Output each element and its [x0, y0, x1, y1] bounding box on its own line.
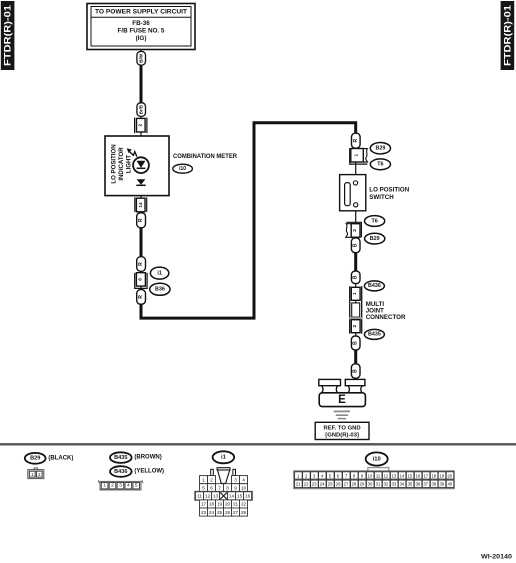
node REF TO GND box — [315, 422, 369, 439]
svg-text:6: 6 — [210, 486, 213, 491]
wire color label B (above MJC) — [351, 271, 360, 284]
svg-text:25: 25 — [328, 482, 333, 487]
svg-text:2: 2 — [38, 472, 41, 477]
svg-text:1: 1 — [103, 482, 106, 488]
svg-text:12: 12 — [384, 473, 389, 478]
svg-text:FTDR(R)-01: FTDR(R)-01 — [2, 4, 13, 66]
svg-text:28: 28 — [352, 482, 357, 487]
svg-text:2: 2 — [137, 124, 143, 127]
svg-text:6: 6 — [137, 278, 143, 281]
svg-text:TO POWER SUPPLY CIRCUIT: TO POWER SUPPLY CIRCUIT — [95, 9, 187, 16]
svg-text:36: 36 — [416, 482, 421, 487]
svg-text:26: 26 — [225, 510, 231, 515]
wire left branch thin backbone — [140, 50, 142, 319]
svg-text:INDICATOR: INDICATOR — [118, 147, 125, 181]
svg-text:34: 34 — [400, 482, 405, 487]
svg-text:38: 38 — [431, 482, 436, 487]
wire thick routed run B36 to B29 (down-right-up-right) — [141, 123, 356, 318]
svg-text:22: 22 — [304, 482, 309, 487]
svg-text:F/B FUSE NO. 5: F/B FUSE NO. 5 — [118, 28, 165, 35]
node FTDR(R)-01 right title bar — [501, 1, 515, 70]
wire color label R (right branch top) — [352, 133, 361, 148]
svg-text:B435: B435 — [368, 332, 381, 338]
svg-text:1: 1 — [31, 472, 34, 477]
lamp LO POSITION INDICATOR LIGHT (LED symbol) — [127, 148, 149, 185]
svg-text:30: 30 — [368, 482, 373, 487]
combination meter box — [105, 136, 169, 196]
svg-text:8: 8 — [226, 486, 229, 491]
svg-text:26: 26 — [336, 482, 341, 487]
label MULTI JOINT CONNECTOR — [366, 301, 406, 321]
svg-text:14: 14 — [229, 494, 235, 499]
connector pin 2 (B435 MJC lower) — [351, 320, 360, 333]
svg-text:31: 31 — [376, 482, 381, 487]
wire color label B (below MJC) — [351, 336, 360, 350]
svg-text:27: 27 — [233, 510, 239, 515]
ground terminal E — [319, 379, 366, 406]
svg-text:B/W: B/W — [139, 53, 144, 63]
svg-text:37: 37 — [423, 482, 428, 487]
legend connector B435/B436 pin view (1-5) — [98, 480, 143, 490]
legend separator rule — [0, 443, 516, 445]
svg-text:WI-20140: WI-20140 — [481, 554, 512, 561]
svg-text:18: 18 — [209, 502, 215, 507]
svg-text:14: 14 — [138, 202, 143, 208]
svg-text:28: 28 — [241, 510, 247, 515]
connector pin 6 (i1 / B36 junction) — [135, 273, 147, 289]
svg-text:20: 20 — [225, 502, 231, 507]
svg-text:15: 15 — [237, 494, 243, 499]
connector pin 14 (meter lower, i10 pin 14) — [135, 197, 147, 211]
legend connector ref i1 oval — [213, 451, 235, 463]
svg-text:14: 14 — [400, 473, 405, 478]
legend connector ref B435 oval — [110, 452, 132, 463]
svg-text:3: 3 — [119, 482, 122, 488]
svg-text:2: 2 — [352, 229, 358, 232]
svg-text:10: 10 — [368, 473, 373, 478]
svg-text:19: 19 — [217, 502, 223, 507]
wire thick segment B29 to B436 — [354, 253, 357, 272]
svg-text:4: 4 — [242, 478, 245, 483]
node TO POWER SUPPLY CIRCUIT / fuse FB-36 F/B FUSE NO.5 (IG) — [87, 4, 195, 50]
svg-text:21: 21 — [233, 502, 239, 507]
ground hatch lines — [334, 411, 350, 418]
svg-text:23: 23 — [312, 482, 317, 487]
svg-text:24: 24 — [320, 482, 325, 487]
svg-text:(BROWN): (BROWN) — [134, 455, 161, 461]
svg-text:(BLACK): (BLACK) — [48, 455, 73, 461]
svg-text:23: 23 — [201, 510, 207, 515]
svg-text:2: 2 — [210, 478, 213, 483]
wire thick segment B435 to ground — [354, 350, 357, 365]
svg-text:B29: B29 — [370, 236, 380, 242]
connector ref i1 oval — [150, 267, 168, 279]
svg-text:25: 25 — [217, 510, 223, 515]
svg-text:39: 39 — [439, 482, 444, 487]
svg-text:3: 3 — [234, 478, 237, 483]
svg-text:FB-36: FB-36 — [132, 20, 150, 27]
svg-text:17: 17 — [423, 473, 428, 478]
svg-text:R: R — [138, 218, 144, 222]
wire thick segment fuse to meter — [140, 65, 143, 104]
svg-text:12: 12 — [205, 494, 211, 499]
svg-text:18: 18 — [431, 473, 436, 478]
svg-text:(IG): (IG) — [136, 35, 147, 42]
svg-text:R: R — [138, 262, 144, 266]
wire color label R (below B36) — [137, 290, 146, 305]
wire right branch thin backbone lower — [355, 207, 357, 380]
switch LO POSITION SWITCH box — [340, 175, 366, 211]
svg-text:B: B — [353, 341, 359, 345]
wire color label R (above i1 connector) — [137, 257, 146, 272]
svg-text:13: 13 — [392, 473, 397, 478]
svg-text:COMBINATION METER: COMBINATION METER — [173, 153, 237, 160]
svg-text:i1: i1 — [157, 270, 162, 276]
connector pin 1 (B436 MJC upper) — [351, 287, 360, 300]
legend connector i1 pin view — [195, 468, 253, 516]
svg-text:5: 5 — [202, 486, 205, 491]
svg-text:32: 32 — [384, 482, 389, 487]
svg-text:16: 16 — [245, 494, 251, 499]
svg-text:5: 5 — [135, 482, 138, 488]
connector ref i10 (at meter) — [173, 164, 193, 173]
svg-text:FTDR(R)-01: FTDR(R)-01 — [502, 4, 513, 66]
wire color label R (below pin 14) — [137, 213, 146, 228]
multi joint connector MJC frame — [349, 286, 362, 333]
svg-text:B29: B29 — [375, 146, 385, 152]
svg-text:2: 2 — [352, 325, 358, 328]
node FTDR(R)-01 left title bar — [1, 1, 15, 70]
svg-text:29: 29 — [360, 482, 365, 487]
svg-text:B435: B435 — [114, 455, 127, 461]
legend connector i10 bracket — [368, 468, 389, 471]
connector ref B36 oval — [150, 283, 170, 295]
svg-text:SWITCH: SWITCH — [369, 194, 394, 201]
svg-text:LO POSITION: LO POSITION — [369, 187, 409, 194]
svg-text:B: B — [353, 369, 359, 373]
svg-text:i10: i10 — [179, 166, 186, 172]
svg-text:10: 10 — [241, 486, 247, 491]
svg-text:9: 9 — [234, 486, 237, 491]
wire color label B (above ground) — [351, 364, 360, 378]
svg-text:LO POSITION: LO POSITION — [111, 144, 118, 183]
legend connector B29 pin view (1 2) — [28, 468, 44, 479]
connector pin 2 (combination meter, i10 pin 2) — [135, 118, 147, 134]
wire color label B (below lower connector) — [351, 238, 360, 253]
connector ref T6 oval (lower) — [365, 216, 385, 227]
svg-text:i1: i1 — [221, 455, 227, 461]
svg-text:22: 22 — [241, 502, 247, 507]
svg-text:21: 21 — [296, 482, 301, 487]
svg-text:B436: B436 — [114, 469, 127, 475]
svg-text:16: 16 — [416, 473, 421, 478]
legend connector ref B436 oval — [110, 466, 132, 477]
svg-text:24: 24 — [209, 510, 215, 515]
connector T6/B29 lower (pin 2) — [346, 222, 362, 237]
svg-text:[GND(R)-03]: [GND(R)-03] — [325, 432, 359, 438]
svg-text:(YELLOW): (YELLOW) — [134, 469, 164, 475]
arrow on lamp — [130, 152, 137, 157]
connector ref B436 oval (MJC upper) — [364, 281, 384, 291]
svg-text:CONNECTOR: CONNECTOR — [366, 314, 406, 321]
legend connector i10 pin view — [294, 471, 454, 489]
wire color label B/W — [137, 52, 146, 66]
wire color label Br/B — [137, 103, 146, 117]
connector B29/T6 upper (pin 1) — [350, 148, 368, 164]
legend connector ref B29 oval — [25, 453, 46, 464]
connector ref T6 oval (upper) — [370, 159, 390, 170]
svg-text:27: 27 — [344, 482, 349, 487]
svg-text:T6: T6 — [371, 218, 377, 224]
svg-text:11: 11 — [197, 494, 202, 499]
svg-text:11: 11 — [376, 473, 381, 478]
svg-text:Br/B: Br/B — [139, 105, 144, 114]
svg-text:R: R — [353, 139, 359, 143]
svg-text:B436: B436 — [368, 283, 381, 289]
svg-text:B29: B29 — [30, 456, 40, 462]
svg-text:15: 15 — [408, 473, 413, 478]
wire right branch thin backbone upper — [355, 123, 357, 181]
connector ref B29 oval (upper) — [370, 143, 390, 154]
svg-text:4: 4 — [127, 482, 130, 488]
svg-text:1: 1 — [354, 154, 360, 157]
svg-text:40: 40 — [447, 482, 452, 487]
svg-text:REF. TO GND: REF. TO GND — [323, 425, 360, 431]
svg-text:T6: T6 — [377, 162, 383, 168]
svg-text:13: 13 — [213, 494, 219, 499]
svg-text:19: 19 — [439, 473, 444, 478]
svg-text:E: E — [338, 394, 346, 406]
svg-text:17: 17 — [201, 502, 207, 507]
svg-text:1: 1 — [352, 292, 358, 295]
svg-text:20: 20 — [447, 473, 452, 478]
svg-text:1: 1 — [202, 478, 205, 483]
legend connector ref i10 oval — [366, 452, 388, 465]
svg-text:2: 2 — [111, 482, 114, 488]
svg-text:LIGHT: LIGHT — [126, 155, 133, 174]
svg-text:B36: B36 — [155, 287, 165, 293]
connector ref B435 oval (MJC lower) — [364, 329, 384, 339]
svg-text:B: B — [353, 275, 359, 279]
connector ref B29 oval (lower) — [365, 233, 385, 244]
svg-text:33: 33 — [392, 482, 397, 487]
wire thick segment meter to i1 connector — [140, 228, 143, 258]
label LO POSITION SWITCH — [369, 187, 409, 201]
svg-text:B: B — [353, 243, 359, 247]
svg-text:7: 7 — [218, 486, 221, 491]
svg-text:R: R — [138, 295, 144, 299]
svg-text:35: 35 — [408, 482, 413, 487]
svg-text:i10: i10 — [373, 456, 381, 462]
